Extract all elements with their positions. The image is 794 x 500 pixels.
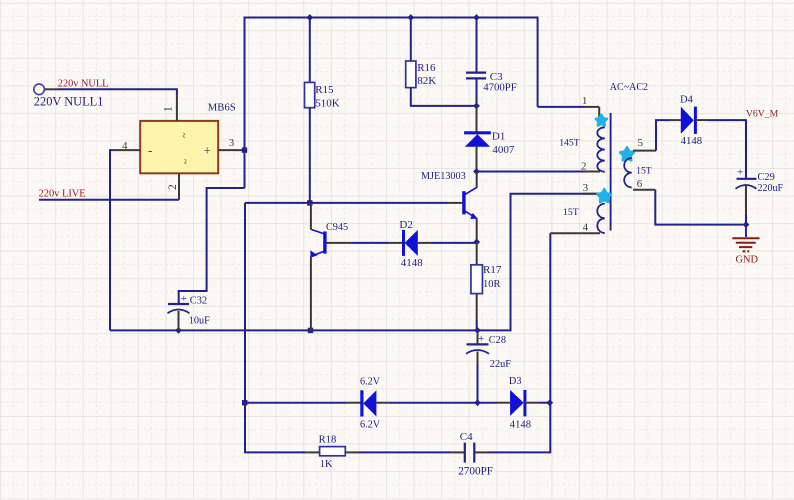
svg-text:R18: R18 [319,435,337,446]
wire trafo pin3 route [478,194,599,331]
label D3 [509,376,522,387]
svg-text:~: ~ [178,133,189,139]
MB6S AC mark top [178,133,189,139]
wire C4 left pin [452,451,465,453]
svg-text:2700PF: 2700PF [458,465,493,477]
node junction rail emitter [308,328,313,333]
label C32 [190,296,207,307]
pin number 2 transformer [581,161,587,173]
label 22uF [490,359,511,370]
pin number 4 MB6S [122,140,128,152]
net label 220v NULL [58,78,109,89]
wire pin4 drop [110,150,113,330]
label R18 [319,435,337,446]
svg-text:4007: 4007 [492,144,515,156]
label 10R [483,279,501,290]
svg-text:220v NULL: 220v NULL [58,78,109,89]
polarity star winding1 [596,115,607,126]
label 2700PF [458,465,493,477]
transistor C945 collector [311,203,324,234]
wire R15 top [309,18,311,83]
node junction rail C32 [175,327,182,334]
node junction zener branch [242,400,247,405]
label R15 [315,84,334,96]
pin 5 of transformer [633,150,656,152]
node junction R17/C28/rail [474,327,481,334]
label C945 [326,222,348,233]
label C3 [490,71,503,83]
transistor Q MJE13003 bar [462,191,465,214]
wire R18 row left [244,451,306,453]
label D2 [399,219,412,231]
svg-text:4148: 4148 [510,419,531,430]
diode D2 bar [402,230,405,256]
net label 220v LIVE [39,188,86,199]
wire mid rail [110,329,478,331]
svg-text:C29: C29 [758,172,775,183]
pin number 3 MB6S [229,137,235,149]
label GND [736,254,759,265]
svg-text:10R: 10R [483,279,501,290]
svg-text:220V NULL1: 220V NULL1 [34,94,104,108]
MB6S plus mark [204,143,211,158]
wire 220v NULL [58,89,177,95]
svg-text:220v LIVE: 220v LIVE [39,188,86,199]
wire C4 right pin [475,451,488,453]
svg-text:2: 2 [167,184,179,190]
label 15T secondary [636,165,652,176]
label 4148 D3 [510,419,531,430]
transistor MJE13003 emitter [465,211,478,242]
pin number 4 transformer [583,222,589,234]
pin number 3 transformer [583,182,589,194]
wire to trafo pin2 [477,171,584,173]
pin 2 of MB6S [178,173,180,200]
pin number 2 MB6S [167,184,179,190]
diode D3 bar [523,390,526,417]
MB6S AC mark bottom [179,159,190,165]
resistor R15 [305,82,315,107]
svg-text:D2: D2 [399,219,412,231]
pin number 6 transformer [637,178,643,190]
transistor Q C945 bar [323,231,326,253]
wire left vertical from top rail [244,17,246,189]
svg-text:C28: C28 [489,335,506,346]
wire R15 bottom [309,108,311,203]
svg-text:D4: D4 [680,94,694,105]
svg-text:6: 6 [637,178,643,190]
wire top rail [245,17,538,19]
transformer winding 145T [597,127,605,171]
node junction C28/D3 [474,399,481,406]
label 4700PF [483,81,517,93]
pin 3 of MB6S [218,149,244,151]
label 6.2V bottom [360,420,381,431]
diode D4 triangle [681,107,694,134]
wire D2 left pin [390,242,404,244]
svg-text:AC~AC2: AC~AC2 [610,82,648,93]
wire zener right pin [376,402,390,404]
label 6.2V top [360,377,381,388]
label D4 [680,94,694,105]
wire D1 bottom [476,147,478,172]
node junction D3/pin4 [546,399,553,406]
svg-text:4148: 4148 [401,257,424,269]
wire base drop x245 [244,203,246,453]
wire C945 base to D2 [327,242,390,244]
svg-text:V6V_M: V6V_M [746,108,779,119]
transistor C945 emitter [310,250,324,330]
port 220V NULL1 circle [34,84,45,95]
svg-text:6.2V: 6.2V [360,420,381,431]
label 510K [315,97,340,109]
svg-text:4148: 4148 [681,135,702,147]
svg-text:3: 3 [583,182,589,194]
svg-text:MB6S: MB6S [208,102,236,114]
svg-text:R15: R15 [315,84,334,96]
label AC~AC2 [610,82,648,93]
svg-text:R16: R16 [417,62,436,74]
svg-text:C945: C945 [326,222,348,233]
net label 220V NULL1 [34,94,104,108]
wire pin6 route [655,190,746,225]
node junction C3/R16/D1 [473,103,480,110]
pin number 1 MB6S [163,106,175,112]
diode D3 triangle [510,390,523,416]
wire C28 bottom pin [477,352,479,403]
capacitor C28 plus [478,333,484,345]
capacitor C29 plus [737,167,743,179]
svg-text:145T: 145T [559,137,580,148]
label C29 [758,172,775,183]
diode D4 bar [694,107,697,134]
pin number 5 transformer [638,137,644,149]
wire D3 left pin [478,402,511,404]
svg-text:510K: 510K [315,97,340,109]
resistor R18 [320,447,346,456]
wire zener row left [245,402,347,404]
pin 3 of transformer [583,193,600,195]
svg-text:1K: 1K [320,459,333,470]
wire D4 left pin [670,119,682,121]
transformer core [610,113,612,231]
wire D4 right pin [695,119,708,121]
wire C28 top pin [477,330,479,344]
label 1K [320,459,333,470]
node junction top rail R15 [306,14,313,21]
svg-text:10uF: 10uF [189,316,210,327]
pin 6 of transformer [633,189,655,191]
wire R16 bottom [411,88,477,106]
wire trafo pin1 [538,107,600,122]
label 145T [559,137,580,148]
wire R16 top [410,18,412,62]
node junction top rail C3 [473,14,480,21]
pin 4 of MB6S [113,149,140,151]
pin 2 of transformer [583,171,600,173]
label MB6S [208,102,236,114]
label C4 [460,431,473,443]
svg-text:15T: 15T [563,207,579,218]
svg-text:22uF: 22uF [490,359,511,370]
svg-text:4700PF: 4700PF [483,81,517,93]
svg-text:C4: C4 [460,431,473,443]
capacitor C32 arc [168,310,190,314]
wire D2 right pin [418,242,477,244]
svg-text:2: 2 [581,161,587,173]
capacitor C32 plate [168,303,189,305]
net label V6V_M [746,108,779,119]
svg-text:R17: R17 [483,264,502,276]
wire base row [245,202,463,204]
capacitor C29 plate [737,178,757,180]
zener D 6.2V bar [360,390,363,416]
transformer winding 15T primary2 [597,204,605,233]
ground GND [732,225,759,252]
svg-text:+: + [204,143,211,158]
svg-text:3: 3 [229,137,235,149]
node junction C29/GND [743,221,750,228]
label R17 [483,264,502,276]
wire jog to C32 [179,188,245,304]
node junction D1/pin2/collector [473,168,480,175]
MB6S minus mark [148,143,152,158]
wire C3 bottom [476,78,478,106]
label 4148 D2 [401,257,424,269]
wire D1 top [476,106,478,133]
wire D4 to C29 [708,120,746,179]
label 220uF [758,183,784,194]
wire port black stub [45,88,58,90]
node junction top rail R16 [407,14,414,21]
capacitor C4 plates [465,443,475,463]
label C28 [489,335,506,346]
label 82K [417,75,436,87]
wire C29 bottom pin [745,186,747,225]
diode D1 triangle [465,134,490,147]
wire zener left pin [347,402,361,404]
svg-text:+: + [181,293,187,305]
wire R18 left pin [306,451,319,453]
label 15T primary2 [563,207,579,218]
svg-text:C32: C32 [190,296,207,307]
label D1 [492,131,505,143]
polarity star secondary [620,147,634,160]
svg-text:GND: GND [736,254,759,265]
svg-text:6.2V: 6.2V [360,377,381,388]
wire trafo pin4 vertical [488,233,551,452]
capacitor C32 plus [181,293,187,305]
node junction base/R15/C945 [307,200,312,205]
svg-text:1: 1 [163,106,175,112]
zener D 6.2V triangle [363,390,376,416]
rectifier U MB6S body [140,121,218,173]
transistor MJE13003 collector [465,172,477,195]
svg-text:15T: 15T [636,165,652,176]
polarity star winding2 [597,189,611,202]
wire R18 right pin [345,451,358,453]
svg-text:82K: 82K [417,75,436,87]
svg-text:~: ~ [179,159,190,165]
wire pin5 up [656,120,670,151]
pin 1 of MB6S [176,95,178,121]
svg-text:4: 4 [122,140,128,152]
svg-text:220uF: 220uF [758,183,784,194]
capacitor C29 arc [736,185,757,189]
label MJE13003 [421,171,466,182]
resistor R16 [406,61,416,88]
label R16 [417,62,436,74]
label 4148 D4 [681,135,702,147]
svg-text:+: + [478,333,484,345]
svg-text:D1: D1 [492,131,505,143]
svg-text:-: - [148,143,152,158]
node junction bridge pin3 [242,147,247,152]
svg-text:1: 1 [582,95,588,107]
pin 4 of transformer [550,232,600,234]
wire zener to C28 [390,402,478,404]
pin number 1 transformer [582,95,588,107]
node junction D2/R17/emitter [473,239,480,246]
svg-text:D3: D3 [509,376,522,387]
label 4007 [492,144,515,156]
diode D1 bar [464,131,491,134]
wire D3 right pin [525,402,550,404]
wire R17 bottom [476,294,478,331]
svg-text:4: 4 [583,222,589,234]
svg-text:MJE13003: MJE13003 [421,171,466,182]
transformer secondary winding 15T [624,158,632,187]
svg-text:+: + [737,167,743,179]
label 10uF [189,316,210,327]
capacitor C32 pin [178,311,180,330]
wire 220v LIVE [39,199,179,201]
capacitor C3 plates [466,73,486,79]
svg-text:5: 5 [638,137,644,149]
wire R17 top [476,242,478,265]
diode D2 triangle [405,230,418,256]
resistor R17 [471,265,483,294]
capacitor C28 arc [466,350,489,354]
capacitor C28 plate [467,343,489,345]
wire C4 to R18 [359,451,452,453]
wire C3 top [476,18,478,73]
wire top-right drop to transformer pin 1 [537,17,539,107]
